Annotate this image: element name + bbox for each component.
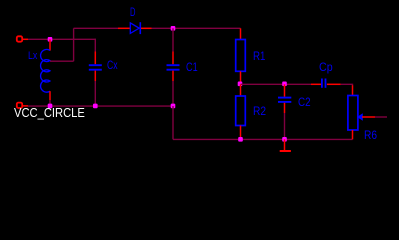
node junction C1 top — [171, 26, 176, 31]
wire main left horizontal — [28, 38, 95, 40]
wire tap horizontal — [50, 60, 74, 62]
resistor R2 pin top — [240, 84, 242, 96]
capacitor Cp pin right — [327, 83, 341, 85]
resistor R6 wiper pin — [362, 116, 375, 118]
inductor Lx pin top — [49, 39, 51, 50]
label Cp — [319, 60, 333, 74]
resistor R2 — [236, 96, 246, 126]
inductor Lx — [41, 49, 50, 92]
diode D pin right — [141, 27, 152, 29]
label Cx — [107, 60, 118, 72]
diode D cathode bar — [139, 22, 141, 34]
resistor R1 pin top — [240, 28, 242, 39]
capacitor Cx — [89, 65, 102, 70]
wire bottom rail left — [28, 105, 173, 107]
wire Lx bottom — [49, 100, 51, 106]
label R2 — [253, 104, 266, 118]
node junction C1 bottom — [171, 104, 176, 109]
capacitor Cp pin left — [311, 83, 321, 85]
resistor R6 — [348, 96, 358, 131]
capacitor Cx pin bottom — [94, 71, 96, 81]
wire C2 lower — [284, 113, 286, 139]
wire mid horizontal — [241, 83, 312, 85]
wire C1 upper — [172, 28, 174, 51]
node junction Lx bottom — [48, 104, 53, 109]
label R1 — [253, 49, 265, 63]
wire top horizontal left — [74, 27, 118, 29]
resistor R2 pin bottom — [240, 126, 242, 140]
node junction ground — [282, 137, 287, 142]
capacitor C1 pin top — [172, 52, 174, 65]
resistor R6 pin top — [352, 85, 354, 95]
wire rail jog vertical — [172, 106, 174, 139]
node junction R2 bottom — [238, 137, 243, 142]
diode D triangle — [130, 23, 139, 34]
capacitor C2 pin bottom — [284, 103, 286, 113]
terminal bottom-left — [17, 103, 22, 108]
node junction C2 top — [282, 82, 287, 87]
label D — [130, 7, 135, 19]
inductor Lx pin bottom — [49, 91, 51, 100]
node junction R1 R2 — [238, 82, 243, 87]
label R6 — [364, 128, 377, 142]
label C2 — [298, 95, 311, 109]
terminal pin stub bottom — [23, 105, 28, 107]
wire bottom rail right — [173, 138, 353, 140]
capacitor Cp — [322, 79, 326, 88]
resistor R1 pin bottom — [240, 71, 242, 84]
label C1 — [186, 60, 198, 74]
diode D pin left — [118, 27, 130, 29]
capacitor C1 — [167, 65, 180, 70]
ground stub — [284, 139, 286, 150]
wire Cx lower — [94, 81, 96, 106]
capacitor Cx pin top — [94, 52, 96, 65]
wire tap vertical — [73, 28, 75, 61]
wire wiper — [375, 116, 387, 118]
wire C1 lower — [172, 81, 174, 106]
net label VCC_CIRCLE — [14, 105, 85, 120]
wire Cx vertical upper — [94, 39, 96, 52]
resistor R1 — [236, 40, 246, 72]
wire top horizontal right — [152, 27, 241, 29]
label Lx — [28, 50, 37, 62]
resistor R6 pin bottom — [352, 130, 354, 139]
node junction Cx bottom — [93, 104, 98, 109]
node junction Lx top — [48, 37, 53, 42]
wire Cp to R6 — [341, 84, 353, 85]
capacitor C2 — [278, 98, 291, 102]
terminal pin stub top — [23, 38, 28, 40]
capacitor C1 pin bottom — [172, 71, 174, 81]
resistor R6 wiper arrow — [358, 114, 363, 120]
terminal top-left — [17, 36, 22, 41]
ground bar — [280, 150, 291, 152]
capacitor C2 pin top — [284, 84, 286, 96]
